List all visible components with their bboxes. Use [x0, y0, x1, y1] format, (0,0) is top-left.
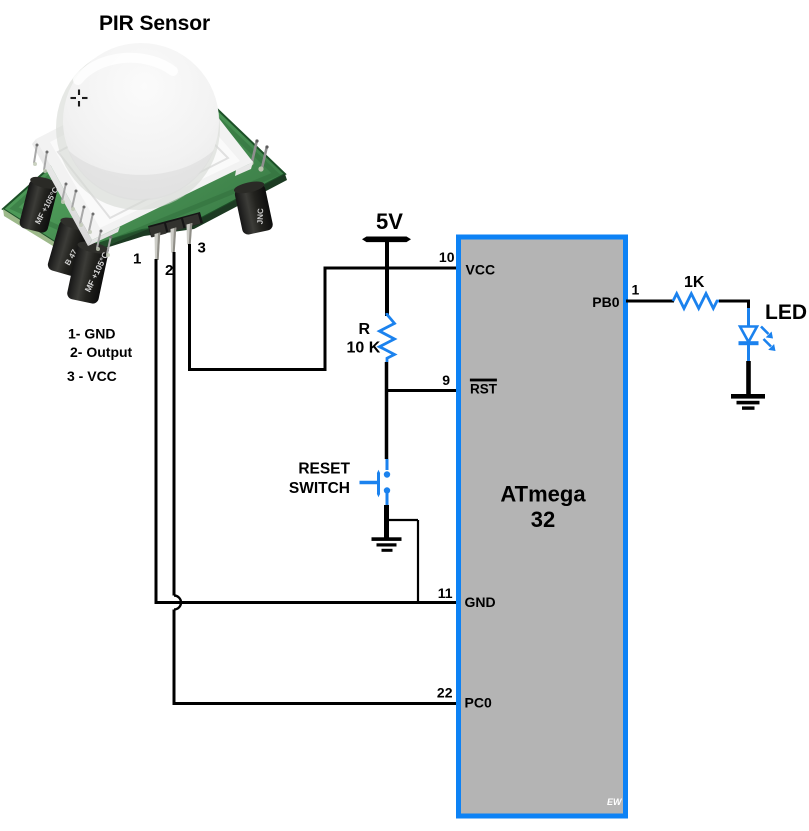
IC U1 ATmega32 body: [459, 237, 626, 816]
svg-text:3: 3: [198, 240, 206, 257]
wire 5V stem through VCC junction to resistor R: [385, 242, 389, 316]
wire sensor pin3 vertical: [188, 244, 191, 368]
fresnel lens plate side: [32, 139, 92, 246]
svg-text:1- GND: 1- GND: [68, 326, 115, 342]
capacitor left top: [18, 174, 62, 234]
svg-text:RESET: RESET: [298, 461, 350, 478]
plate inner rim: [58, 95, 228, 218]
svg-text:RST: RST: [470, 381, 498, 396]
svg-text:LED: LED: [765, 301, 807, 324]
svg-text:10: 10: [439, 249, 455, 265]
svg-text:EW: EW: [607, 797, 623, 807]
wire resistor R bottom through RST junction to switch: [385, 362, 389, 459]
wire GND net horizontal to IC pin 11: [155, 601, 459, 604]
LED emission arrows: [761, 327, 776, 352]
PIR sensor photo (drawn): [3, 43, 287, 305]
wire corner down to LED anode: [747, 308, 750, 327]
PCB light side edge: [3, 209, 90, 254]
wire VCC net horizontal to IC pin 10: [324, 267, 459, 270]
svg-text:1: 1: [632, 282, 640, 298]
svg-text:1: 1: [133, 251, 141, 268]
fresnel lens plate top: [36, 66, 253, 240]
solder pins on board right: [252, 140, 267, 168]
ground (reset switch): [372, 537, 402, 552]
switch S1 push button: [360, 459, 391, 506]
wire resistor 1K to corner node: [719, 300, 750, 309]
resistor 1K (zigzag): [673, 294, 720, 309]
cursor crosshair: [71, 90, 88, 107]
svg-text:11: 11: [438, 585, 453, 601]
wire branch from switch node to GND net: [387, 520, 418, 601]
capacitor right: [233, 179, 274, 235]
capacitor left bottom 1: [46, 215, 91, 277]
svg-text:PB0: PB0: [592, 294, 619, 310]
header metal pins: [155, 223, 193, 260]
wire sensor pin1 to GND net (vertical): [155, 259, 158, 601]
LED diode symbol: [739, 327, 759, 363]
svg-text:32: 32: [531, 507, 555, 532]
power 5V rail bar: [362, 237, 411, 243]
ground (LED): [731, 394, 765, 410]
svg-text:ATmega: ATmega: [500, 482, 586, 507]
wire sensor pin3 horizontal run: [188, 368, 325, 371]
pin name RST (active low): [470, 379, 498, 397]
wire switch bottom to ground: [384, 505, 389, 538]
svg-text:22: 22: [437, 685, 453, 701]
dome shadow on plate: [56, 46, 220, 210]
wire sensor pin2 lower segment: [173, 610, 176, 703]
svg-text:JNC: JNC: [256, 208, 266, 225]
wire riser to VCC net: [324, 268, 327, 371]
svg-text:9: 9: [442, 372, 450, 388]
PCB darker trace band: [14, 72, 276, 246]
svg-text:5V: 5V: [376, 209, 403, 234]
svg-text:R: R: [359, 321, 371, 338]
wire sensor pin2 upper segment: [173, 252, 176, 596]
svg-text:SWITCH: SWITCH: [289, 480, 350, 497]
wire LED cathode to ground: [746, 361, 751, 395]
capacitor left bottom 2: [66, 239, 112, 305]
svg-text:PC0: PC0: [465, 695, 492, 711]
svg-text:GND: GND: [465, 594, 496, 610]
lens dome: [63, 43, 219, 199]
wire PC0 net horizontal to IC pin 22: [173, 702, 459, 705]
svg-text:2: 2: [165, 262, 173, 279]
mounting hole: [41, 181, 54, 192]
PCB dark bottom edge: [88, 174, 287, 253]
svg-text:1K: 1K: [684, 274, 705, 291]
svg-text:10 K: 10 K: [347, 340, 381, 357]
PCB board: [3, 62, 285, 248]
svg-text:VCC: VCC: [466, 262, 496, 278]
svg-text:PIR Sensor: PIR Sensor: [99, 12, 210, 35]
wire hop (no-connect jump over GND net): [174, 596, 181, 610]
wire RST net horizontal to IC pin 9: [387, 389, 458, 392]
svg-text:2- Output: 2- Output: [70, 344, 133, 360]
pin header block: [148, 212, 203, 238]
wire IC pin 1 PB0 to resistor 1K: [626, 300, 674, 303]
label RESET SWITCH: [289, 461, 351, 498]
solder pins on board left: [34, 144, 111, 254]
svg-text:3 - VCC: 3 - VCC: [67, 368, 117, 384]
resistor R 10K (zigzag): [380, 313, 395, 362]
